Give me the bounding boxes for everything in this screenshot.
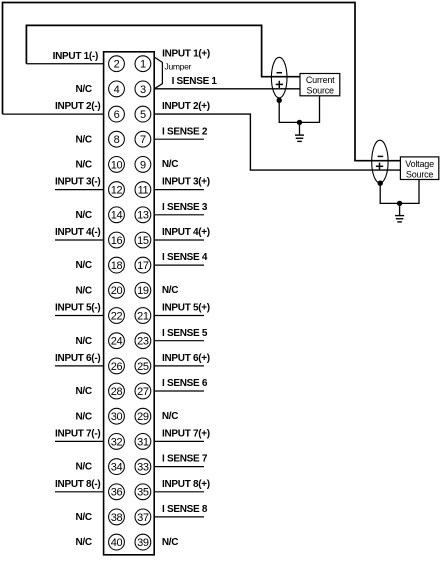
svg-text:INPUT 7(+): INPUT 7(+) bbox=[162, 429, 210, 440]
svg-text:Source: Source bbox=[307, 86, 335, 96]
svg-text:N/C: N/C bbox=[162, 159, 178, 170]
svg-text:I SENSE 7: I SENSE 7 bbox=[162, 454, 208, 465]
svg-text:N/C: N/C bbox=[75, 512, 91, 523]
svg-text:N/C: N/C bbox=[162, 537, 178, 548]
svg-text:38: 38 bbox=[111, 512, 123, 524]
svg-text:INPUT 6(+): INPUT 6(+) bbox=[162, 353, 210, 364]
svg-text:N/C: N/C bbox=[75, 160, 91, 171]
svg-text:7: 7 bbox=[140, 134, 146, 146]
svg-text:N/C: N/C bbox=[75, 537, 91, 548]
svg-text:2: 2 bbox=[114, 59, 120, 71]
svg-text:17: 17 bbox=[137, 260, 149, 272]
svg-text:INPUT 3(-): INPUT 3(-) bbox=[55, 177, 100, 188]
svg-text:INPUT 5(+): INPUT 5(+) bbox=[162, 303, 210, 314]
svg-text:I SENSE 5: I SENSE 5 bbox=[162, 328, 208, 339]
svg-text:27: 27 bbox=[137, 386, 149, 398]
svg-text:INPUT 2(-): INPUT 2(-) bbox=[55, 101, 100, 112]
svg-text:I SENSE 4: I SENSE 4 bbox=[162, 252, 208, 263]
svg-text:36: 36 bbox=[111, 487, 123, 499]
svg-text:6: 6 bbox=[114, 109, 120, 121]
svg-text:INPUT 8(-): INPUT 8(-) bbox=[55, 479, 100, 490]
svg-text:12: 12 bbox=[111, 185, 123, 197]
svg-text:32: 32 bbox=[111, 436, 123, 448]
svg-text:Current: Current bbox=[306, 75, 335, 85]
svg-text:34: 34 bbox=[111, 462, 123, 474]
svg-text:INPUT 3(+): INPUT 3(+) bbox=[162, 177, 210, 188]
svg-text:N/C: N/C bbox=[75, 462, 91, 473]
svg-text:INPUT 2(+): INPUT 2(+) bbox=[162, 101, 210, 112]
svg-text:INPUT 8(+): INPUT 8(+) bbox=[162, 479, 210, 490]
svg-text:14: 14 bbox=[111, 210, 123, 222]
svg-text:24: 24 bbox=[111, 336, 123, 348]
svg-text:N/C: N/C bbox=[75, 336, 91, 347]
svg-text:21: 21 bbox=[137, 310, 149, 322]
svg-text:20: 20 bbox=[111, 285, 123, 297]
svg-text:INPUT 7(-): INPUT 7(-) bbox=[55, 429, 100, 440]
svg-text:Voltage: Voltage bbox=[405, 159, 434, 169]
svg-text:N/C: N/C bbox=[75, 134, 91, 145]
svg-text:N/C: N/C bbox=[75, 210, 91, 221]
svg-text:N/C: N/C bbox=[75, 84, 91, 95]
svg-text:N/C: N/C bbox=[75, 285, 91, 296]
svg-text:39: 39 bbox=[137, 537, 149, 549]
svg-text:28: 28 bbox=[111, 386, 123, 398]
svg-text:37: 37 bbox=[137, 512, 149, 524]
svg-text:INPUT 6(-): INPUT 6(-) bbox=[55, 353, 100, 364]
svg-text:16: 16 bbox=[111, 235, 123, 247]
svg-text:11: 11 bbox=[138, 185, 149, 197]
svg-text:INPUT 4(-): INPUT 4(-) bbox=[55, 227, 100, 238]
svg-text:INPUT 4(+): INPUT 4(+) bbox=[162, 227, 210, 238]
svg-text:INPUT 1(-): INPUT 1(-) bbox=[53, 51, 98, 62]
svg-text:23: 23 bbox=[137, 336, 149, 348]
svg-text:I SENSE 8: I SENSE 8 bbox=[162, 504, 208, 515]
svg-text:19: 19 bbox=[137, 285, 149, 297]
svg-text:35: 35 bbox=[137, 487, 149, 499]
svg-text:10: 10 bbox=[111, 159, 123, 171]
svg-text:40: 40 bbox=[111, 537, 123, 549]
svg-text:33: 33 bbox=[137, 462, 149, 474]
svg-text:INPUT 5(-): INPUT 5(-) bbox=[55, 303, 100, 314]
svg-text:Source: Source bbox=[406, 170, 434, 180]
svg-text:N/C: N/C bbox=[162, 411, 178, 422]
svg-text:1: 1 bbox=[140, 59, 146, 71]
svg-text:22: 22 bbox=[111, 310, 123, 322]
svg-text:15: 15 bbox=[137, 235, 149, 247]
svg-text:18: 18 bbox=[111, 260, 123, 272]
svg-text:3: 3 bbox=[140, 84, 146, 96]
svg-text:29: 29 bbox=[137, 411, 149, 423]
svg-text:8: 8 bbox=[114, 134, 120, 146]
svg-text:Jumper: Jumper bbox=[165, 62, 192, 72]
svg-text:I SENSE 6: I SENSE 6 bbox=[162, 378, 208, 389]
svg-text:N/C: N/C bbox=[75, 260, 91, 271]
svg-text:4: 4 bbox=[114, 84, 120, 96]
svg-text:I SENSE 3: I SENSE 3 bbox=[162, 202, 208, 213]
svg-text:30: 30 bbox=[111, 411, 123, 423]
svg-text:5: 5 bbox=[140, 109, 146, 121]
svg-text:N/C: N/C bbox=[162, 285, 178, 296]
svg-text:26: 26 bbox=[111, 361, 123, 373]
svg-text:25: 25 bbox=[137, 361, 149, 373]
svg-text:31: 31 bbox=[137, 436, 149, 448]
svg-text:13: 13 bbox=[137, 210, 149, 222]
svg-text:9: 9 bbox=[140, 159, 146, 171]
svg-text:INPUT 1(+): INPUT 1(+) bbox=[162, 48, 210, 59]
svg-text:N/C: N/C bbox=[75, 386, 91, 397]
svg-text:I SENSE 1: I SENSE 1 bbox=[172, 76, 218, 87]
svg-text:I SENSE 2: I SENSE 2 bbox=[162, 126, 208, 137]
svg-text:N/C: N/C bbox=[75, 411, 91, 422]
